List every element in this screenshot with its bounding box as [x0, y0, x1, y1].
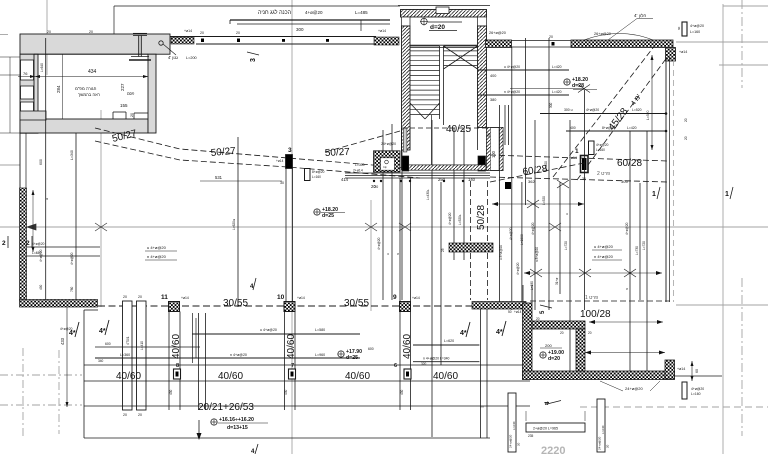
- svg-text:L=720: L=720: [642, 241, 646, 250]
- beam lines col3 down: [286, 169, 293, 302]
- stair flight arrow line: [431, 115, 433, 170]
- left rebar labels: [39, 63, 74, 292]
- svg-text:30: 30: [582, 177, 586, 181]
- dim 284 line: [62, 54, 64, 119]
- room texts: [23, 69, 135, 117]
- svg-text:הכנה לגג חניה: הכנה לגג חניה: [258, 9, 292, 16]
- bottom-left corner hatch strip: [20, 300, 98, 308]
- section 15 marker: [544, 401, 561, 406]
- column 3: [276, 147, 293, 169]
- grid dash horizontal y=407 right: [480, 406, 768, 408]
- svg-text:340: 340: [98, 359, 104, 363]
- svg-text:531: 531: [215, 175, 223, 180]
- room inner outline: [34, 54, 148, 119]
- room right wall gray: [148, 54, 156, 133]
- svg-text:4+ø@20: 4+ø@20: [625, 222, 629, 235]
- svg-text:300: 300: [296, 27, 304, 32]
- beam verticals col11: [169, 312, 180, 411]
- duct room labels: [353, 142, 396, 173]
- svg-text:600: 600: [39, 159, 43, 165]
- svg-text:L=420: L=420: [552, 65, 562, 69]
- svg-text:20: 20: [200, 31, 204, 35]
- svg-text:L=520: L=520: [646, 110, 650, 120]
- svg-text:8+ø@20: 8+ø@20: [602, 126, 615, 130]
- svg-text:20: 20: [123, 413, 127, 417]
- stair top wall: [401, 7, 487, 17]
- grid axis vertical x=23 dash-dot segments: [22, 58, 24, 436]
- door pivot circle: [159, 41, 176, 55]
- svg-text:4+ø@20: 4+ø@20: [32, 242, 45, 246]
- svg-text:L=240: L=240: [512, 421, 516, 430]
- svg-text:50/27: 50/27: [210, 146, 236, 159]
- elevation +16 group: [211, 417, 268, 431]
- grid dash-dot horizontals left margin: [0, 375, 82, 405]
- svg-text:20: 20: [236, 31, 240, 35]
- left wall hatch strip: [20, 188, 27, 301]
- wall line right of room: [674, 375, 722, 377]
- svg-text:20: 20: [47, 30, 51, 34]
- svg-text:780: 780: [70, 286, 74, 292]
- stirrup near column 3: [305, 169, 325, 181]
- svg-text:26+ø@20: 26+ø@20: [594, 32, 611, 36]
- svg-text:L=620: L=620: [444, 339, 454, 343]
- svg-text:2 פרט: 2 פרט: [597, 171, 610, 177]
- column 9: [393, 294, 420, 312]
- svg-text:L=520: L=520: [632, 108, 642, 112]
- beam 30/55 dashed: [98, 305, 530, 307]
- svg-text:L=485: L=485: [355, 10, 368, 15]
- duct room checker U: [374, 151, 401, 172]
- top beam hatch right short: [486, 40, 512, 48]
- svg-text:L=160: L=160: [690, 30, 700, 34]
- svg-text:40/60: 40/60: [218, 371, 243, 382]
- svg-text:24+ø@20: 24+ø@20: [598, 436, 602, 450]
- svg-text:380: 380: [490, 98, 496, 102]
- svg-text:2+ø@20 L=965: 2+ø@20 L=965: [533, 427, 558, 431]
- stair left wall: [402, 17, 411, 150]
- svg-text:600: 600: [368, 347, 374, 351]
- room left wall: [523, 303, 533, 379]
- svg-text:2220: 2220: [541, 445, 565, 454]
- svg-text:u 4+ø@20: u 4+ø@20: [260, 328, 277, 332]
- label 45/28: [607, 106, 631, 133]
- dim line y=88: [510, 85, 590, 93]
- elevation d=20 stair: [420, 18, 462, 32]
- dim vertical x=33: [32, 190, 35, 252]
- section marker 1 b: [725, 187, 733, 199]
- svg-text:227: 227: [120, 83, 125, 91]
- elevation +18.20 d=25: [314, 207, 345, 219]
- grid axis vertical x=742 dash-dot: [741, 0, 743, 436]
- svg-text:+ø14: +ø14: [412, 296, 420, 300]
- svg-text:+ø14: +ø14: [276, 159, 284, 163]
- svg-text:50: 50: [508, 310, 512, 314]
- right corner column hatch: [666, 48, 676, 62]
- svg-text:11: 11: [161, 294, 168, 301]
- svg-text:24+ø@20: 24+ø@20: [509, 434, 513, 448]
- rebar lines hall left: [27, 242, 100, 256]
- svg-text:430: 430: [169, 389, 173, 395]
- svg-text:L=300: L=300: [355, 163, 365, 167]
- dim 300: [296, 27, 304, 32]
- rebar line y=129: [566, 126, 688, 140]
- svg-text:n 4+ø@20 L=340: n 4+ø@20 L=340: [423, 357, 450, 361]
- svg-text:320: 320: [421, 362, 427, 366]
- svg-text:40/60: 40/60: [116, 371, 141, 382]
- svg-text:9: 9: [393, 294, 397, 301]
- svg-text:4+ø@20: 4+ø@20: [691, 387, 704, 391]
- svg-text:30/55: 30/55: [344, 298, 369, 309]
- svg-text:20: 20: [138, 295, 142, 299]
- svg-text:1: 1: [725, 191, 729, 198]
- svg-text:+ø14: +ø14: [514, 310, 522, 314]
- short verticals x192-196: [193, 313, 197, 363]
- beam lines stair down to col9: [400, 178, 411, 301]
- stair left wall lower outline: [402, 128, 487, 171]
- roof prep annotation line y=6: [114, 6, 400, 34]
- lower slab outline: [84, 310, 490, 438]
- rebar vertical labels: [499, 102, 646, 290]
- stair stringer: [440, 46, 444, 125]
- stair left wall lower black blocks: [402, 128, 486, 171]
- dim arrows y=322: [589, 320, 663, 324]
- svg-text:40/60: 40/60: [171, 334, 182, 359]
- svg-text:250: 250: [438, 177, 446, 182]
- svg-text:d=20: d=20: [430, 24, 445, 31]
- dim arrows y=204: [492, 200, 584, 208]
- svg-text:1: 1: [575, 148, 579, 155]
- room bottom wall gray: [20, 119, 148, 133]
- svg-text:L=340: L=340: [70, 150, 74, 160]
- room inner right wall: [576, 329, 585, 371]
- label 30/55 b: [344, 298, 369, 309]
- svg-text:+ø14: +ø14: [378, 29, 386, 33]
- svg-text:d=28: d=28: [572, 83, 584, 89]
- beam pill pair left: [123, 295, 147, 417]
- stair treads left flight: [410, 46, 440, 115]
- svg-text:+ø14: +ø14: [297, 296, 305, 300]
- svg-text:d=25: d=25: [346, 355, 358, 361]
- svg-text:4+ø@20: 4+ø@20: [70, 252, 74, 265]
- svg-text:20: 20: [123, 295, 127, 299]
- svg-text:n: n: [625, 288, 629, 290]
- stair break chevron: [410, 103, 440, 119]
- svg-text:50/27: 50/27: [325, 147, 351, 159]
- right wall double line: [666, 57, 674, 302]
- faint title text: [541, 445, 565, 454]
- svg-text:d=13+15: d=13+15: [227, 425, 248, 431]
- svg-text:300 u: 300 u: [564, 108, 573, 112]
- svg-text:L=640: L=640: [40, 63, 44, 72]
- svg-text:8: 8: [176, 363, 179, 369]
- top wall thin double line: [170, 37, 376, 45]
- svg-text:434: 434: [88, 69, 97, 75]
- grid tick y=34 left: [0, 34, 8, 36]
- svg-text:+ø14: +ø14: [181, 296, 189, 300]
- svg-text:d=20: d=20: [548, 356, 560, 362]
- left wall gray band upper: [20, 54, 38, 133]
- svg-text:60: 60: [695, 369, 699, 373]
- svg-text:L=1800: L=1800: [520, 234, 524, 245]
- annotation text hachana legag: [258, 9, 368, 16]
- svg-text:60: 60: [677, 26, 681, 30]
- svg-text:300: 300: [549, 102, 553, 108]
- svg-text:u 4+ø@20: u 4+ø@20: [147, 245, 167, 250]
- svg-text:2+ø14: 2+ø14: [353, 169, 363, 173]
- svg-text:20: 20: [549, 35, 553, 39]
- section marker 2 inner: [26, 236, 32, 248]
- rebar line y=70: [478, 65, 569, 78]
- label 50/27 c: [325, 147, 351, 159]
- svg-text:u: u: [45, 198, 49, 200]
- svg-text:24+ø@20: 24+ø@20: [381, 142, 396, 146]
- svg-text:20: 20: [138, 413, 142, 417]
- svg-text:4+ø@20: 4+ø@20: [516, 262, 520, 275]
- svg-text:4+ø@20: 4+ø@20: [305, 10, 323, 15]
- svg-text:20: 20: [588, 331, 592, 335]
- svg-text:L=ג520: L=ג520: [458, 214, 462, 225]
- svg-text:40/25: 40/25: [446, 124, 471, 135]
- rebar line y=95: [478, 90, 569, 102]
- annotation double line: [230, 20, 390, 31]
- I-column at top wall: [129, 34, 151, 61]
- svg-text:n 4+ø@20: n 4+ø@20: [594, 254, 614, 259]
- stirrup near column 1: [589, 141, 609, 155]
- rebar verticals middle right: [432, 38, 647, 437]
- right wall dim: [677, 361, 699, 381]
- closet boxes left: [21, 60, 34, 119]
- svg-text:155: 155: [120, 103, 128, 108]
- svg-text:4+ø@20: 4+ø@20: [531, 222, 535, 235]
- svg-text:4+ø@20: 4+ø@20: [377, 237, 381, 250]
- elevation +17.90 d=25: [338, 347, 374, 361]
- of14 label right: [679, 50, 687, 54]
- grid axis vertical x=101 segment: [100, 110, 102, 307]
- svg-text:4+ø@20: 4+ø@20: [586, 108, 599, 112]
- rebar text above beam: [489, 31, 611, 36]
- section 5 marker: [540, 305, 552, 314]
- rebar verticals x=454 x=464: [448, 128, 464, 260]
- hatch strip mid right: [441, 243, 493, 252]
- room hebrew note: [75, 86, 100, 97]
- grid horizontal y=305 right: [676, 304, 768, 306]
- svg-text:L=720: L=720: [564, 241, 568, 250]
- band ticks: [47, 30, 95, 40]
- label 100/28: [580, 309, 611, 320]
- svg-text:L=200: L=200: [186, 56, 197, 60]
- grid axis vertical x=47 top-left: [46, 0, 48, 75]
- beam 50/28 dashed vertical: [471, 181, 488, 300]
- axis cross marks on y=227: [27, 223, 561, 231]
- svg-text:400: 400: [490, 74, 496, 78]
- svg-text:20/21+26/53: 20/21+26/53: [198, 402, 254, 413]
- rebar vertical x=432: [426, 120, 432, 307]
- pill labels: [126, 336, 404, 395]
- svg-text:פֱח: פֱח: [383, 165, 387, 169]
- column 7: [289, 363, 296, 379]
- stair flight top line: [410, 45, 478, 47]
- grid short tick y=165 left: [0, 164, 20, 166]
- dim 20 under stair: [371, 184, 376, 189]
- room inner top wall: [532, 321, 585, 329]
- down arrow bottom: [197, 420, 202, 440]
- rebar line right y358: [413, 357, 479, 367]
- grid horizontal y=6 right: [723, 5, 768, 7]
- svg-text:24+ø@20: 24+ø@20: [625, 386, 644, 391]
- perat1 dashed line: [530, 295, 670, 301]
- slab edge triple lines: [345, 173, 490, 178]
- svg-text:100: 100: [491, 150, 496, 158]
- column 6: [394, 363, 411, 379]
- svg-text:L=ג430: L=ג430: [426, 189, 430, 200]
- svg-text:20: 20: [536, 317, 540, 321]
- section marker 1 a: [652, 187, 660, 199]
- svg-text:40/60: 40/60: [433, 371, 458, 382]
- section 4 markers: [69, 322, 79, 337]
- svg-text:40/60: 40/60: [345, 371, 370, 382]
- beam 50/27 dashed lower line: [95, 141, 420, 178]
- rebar verticals x=383..402: [377, 124, 402, 300]
- svg-text:2: 2: [2, 240, 6, 247]
- svg-text:40/60: 40/60: [286, 334, 297, 359]
- grid axis horizontal y=227: [0, 226, 768, 228]
- grid axis vertical x=371 segment: [370, 200, 372, 311]
- small shaft right of stair: [487, 128, 504, 171]
- vertical dim line right: [646, 55, 654, 150]
- svg-text:L=גו620: L=גו620: [232, 218, 236, 230]
- svg-text:31+ø: 31+ø: [555, 278, 559, 285]
- wall hatch segment right: [374, 37, 399, 45]
- svg-text:L=360: L=360: [120, 353, 130, 357]
- svg-text:20: 20: [517, 442, 521, 446]
- dim line y=352 room right: [585, 351, 665, 355]
- hatch strip right of 9: [472, 302, 526, 315]
- rebar line y=115: [540, 108, 688, 122]
- svg-text:430: 430: [284, 389, 288, 395]
- dim dots: [373, 180, 464, 182]
- svg-text:3: 3: [288, 147, 292, 154]
- svg-text:20: 20: [560, 331, 564, 335]
- dim 531: [200, 175, 284, 185]
- label 50/28: [476, 205, 487, 230]
- svg-text:n: n: [396, 253, 400, 255]
- svg-text:284: 284: [56, 85, 61, 93]
- svg-text:4+ø@20: 4+ø@20: [596, 143, 609, 147]
- svg-text:50: 50: [487, 133, 491, 137]
- svg-text:L=580: L=580: [315, 328, 325, 332]
- detached bar c horizontal: [526, 411, 585, 438]
- svg-text:4' חלון: 4' חלון: [634, 13, 646, 18]
- rebar line y358: [95, 353, 360, 363]
- label 40/25: [446, 124, 471, 135]
- label perat2: [528, 171, 628, 188]
- beam 50/27 fork dash: [325, 131, 400, 152]
- beam 50/27 dashed upper line: [95, 128, 420, 169]
- rebar line y347: [60, 327, 200, 347]
- svg-text:d=25: d=25: [322, 213, 334, 219]
- elevation +19.00 d=20: [540, 343, 564, 362]
- section 4 marker mid: [250, 278, 256, 290]
- column 8: [174, 363, 181, 379]
- small black block left of col1: [505, 182, 511, 189]
- svg-text:400: 400: [570, 126, 576, 130]
- top beam hatch right long: [571, 40, 673, 48]
- label 60/28 right: [617, 158, 642, 169]
- svg-text:n 4+ø@20: n 4+ø@20: [147, 254, 167, 259]
- svg-text:7: 7: [291, 363, 294, 369]
- svg-text:20: 20: [684, 118, 688, 122]
- room step bottom: [113, 112, 148, 119]
- stirrup top right: [677, 22, 704, 36]
- beam verticals col10: [285, 312, 296, 411]
- svg-text:4+ø@20: 4+ø@20: [690, 24, 704, 28]
- dim 433 vertical: [60, 307, 69, 407]
- svg-text:25: 25: [441, 248, 445, 252]
- svg-text:+ø14: +ø14: [677, 367, 685, 371]
- 24 rebar leader: [600, 381, 660, 391]
- svg-text:L=240: L=240: [601, 425, 605, 434]
- top wall gray band: [20, 34, 170, 54]
- label 4 m: [630, 93, 643, 107]
- svg-text:u: u: [565, 213, 569, 215]
- column 10: [277, 294, 305, 312]
- label 40/60 vert c: [402, 334, 413, 359]
- svg-text:200: 200: [545, 343, 552, 348]
- svg-text:3: 3: [250, 58, 257, 62]
- svg-text:2: 2: [26, 240, 30, 247]
- horizontal beam lines y365 y381: [84, 365, 530, 381]
- svg-text:L=410: L=410: [140, 341, 144, 350]
- top wall window double line: [512, 35, 572, 47]
- column 1: [569, 148, 588, 173]
- svg-text:+16.16÷+16.20: +16.16÷+16.20: [219, 417, 254, 423]
- wall under stair diag band: [409, 165, 486, 170]
- label 30/55 a: [223, 298, 248, 309]
- svg-text:n 8+ø@20: n 8+ø@20: [535, 247, 539, 262]
- svg-text:600: 600: [105, 342, 111, 346]
- svg-text:+ø14: +ø14: [184, 29, 192, 33]
- svg-text:L=730: L=730: [635, 246, 639, 255]
- svg-text:n 4+ø@20: n 4+ø@20: [230, 353, 247, 357]
- svg-text:235: 235: [528, 434, 534, 438]
- diagonal beam 45/28 dashed: [553, 44, 668, 180]
- grid horizontal y=65 right: [719, 64, 768, 66]
- grid axis vertical x=723: [722, 4, 724, 454]
- rebar text pair underlined: [592, 244, 622, 260]
- svg-text:L=160: L=160: [691, 392, 701, 396]
- gagon text: [168, 55, 197, 60]
- detached bar b: [597, 399, 610, 452]
- svg-text:4'70/1: 4'70/1: [126, 336, 130, 345]
- svg-text:ראה בהמשך: ראה בהמשך: [78, 92, 100, 97]
- dim arrows y=273: [524, 269, 662, 277]
- beam verticals col9: [400, 312, 411, 411]
- svg-text:20: 20: [374, 185, 378, 189]
- svg-text:10: 10: [277, 294, 285, 301]
- svg-text:490: 490: [39, 284, 43, 290]
- room right end wall: [665, 360, 675, 379]
- svg-text:50/28: 50/28: [476, 205, 487, 230]
- svg-text:L=480: L=480: [32, 251, 41, 255]
- svg-text:20: 20: [89, 30, 93, 34]
- svg-text:26+ø@20: 26+ø@20: [489, 31, 506, 35]
- wall ticks: [200, 31, 329, 42]
- label 50/27 a: [111, 128, 138, 145]
- svg-text:20: 20: [606, 444, 610, 448]
- svg-text:L=400: L=400: [544, 161, 548, 170]
- svg-text:L=160: L=160: [596, 148, 605, 152]
- svg-text:פסם: פסם: [127, 92, 135, 96]
